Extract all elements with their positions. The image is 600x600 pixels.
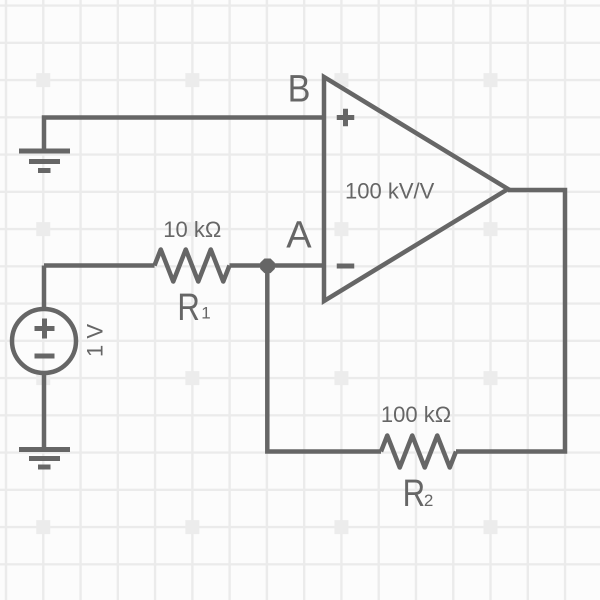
svg-text:10 kΩ: 10 kΩ xyxy=(163,217,221,242)
svg-text:R: R xyxy=(177,287,200,329)
node A junction dot xyxy=(260,258,275,273)
svg-text:2: 2 xyxy=(424,491,433,510)
wire: ground to op-amp + input (node B) xyxy=(44,118,324,151)
wire: feedback from node A down and right to R2 xyxy=(267,266,381,452)
wire: voltage source bottom lead xyxy=(42,373,47,447)
op-amp - input marker xyxy=(337,264,355,269)
voltage source V1 circle xyxy=(12,309,76,373)
svg-text:B: B xyxy=(288,67,311,110)
svg-text:1 V: 1 V xyxy=(83,324,108,357)
wire: node A horizontal left segment (source to R1) xyxy=(44,263,155,268)
voltage source - marker xyxy=(35,354,55,359)
resistor R2 zigzag xyxy=(381,436,456,468)
wire: R2 to op-amp output xyxy=(456,190,565,452)
ground (bottom, below V1) xyxy=(19,450,70,468)
resistor R1 zigzag xyxy=(155,250,230,282)
voltage source + marker xyxy=(35,319,55,339)
wire: R1 to op-amp - input xyxy=(230,263,325,268)
svg-text:1: 1 xyxy=(201,304,210,323)
svg-text:R: R xyxy=(403,473,426,515)
svg-text:A: A xyxy=(286,215,312,257)
wire: voltage source top lead xyxy=(42,266,47,310)
svg-text:100 kΩ: 100 kΩ xyxy=(381,402,451,427)
ground (top-left, node B) xyxy=(19,151,70,171)
op-amp U1 triangle xyxy=(324,77,508,301)
op-amp + input marker xyxy=(337,109,355,127)
svg-text:100 kV/V: 100 kV/V xyxy=(345,179,435,204)
